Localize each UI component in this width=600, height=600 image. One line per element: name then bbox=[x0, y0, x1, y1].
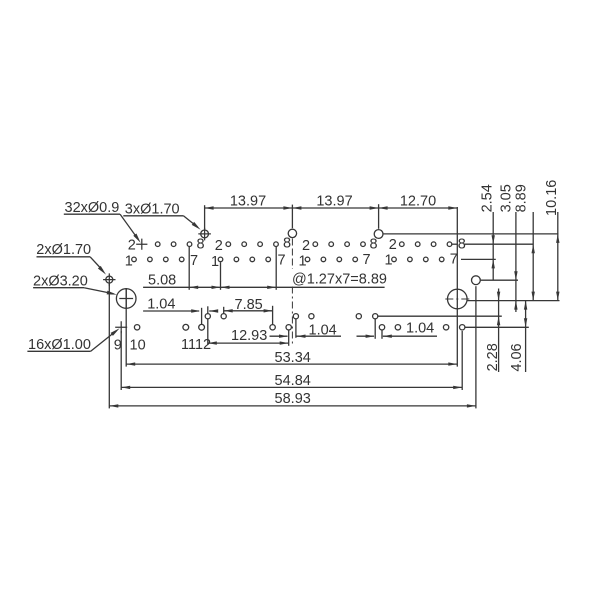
svg-text:2: 2 bbox=[128, 238, 136, 254]
svg-text:2xØ1.70: 2xØ1.70 bbox=[36, 242, 91, 258]
arrow right of 207.8 bbox=[209, 309, 218, 312]
ext line up from hole H1 bbox=[204, 205, 206, 229]
col 8.89 line bbox=[532, 212, 534, 301]
leader to big left hole bbox=[84, 288, 113, 294]
pins row D pair 446-462 bbox=[443, 325, 448, 330]
pin 9 cross bbox=[115, 321, 127, 333]
dim line 58.93 bbox=[109, 405, 476, 407]
col 2.28 line bbox=[498, 289, 500, 373]
svg-text:7: 7 bbox=[363, 252, 371, 268]
svg-text:10.16: 10.16 bbox=[544, 180, 560, 216]
dim line 12.93 bbox=[208, 342, 289, 344]
col 2.54 line bbox=[492, 212, 494, 280]
dim line 13.97+13.97+12.70 bbox=[205, 207, 458, 209]
group1 pin2 cross bbox=[136, 239, 147, 250]
ext line down from pin D6 bbox=[288, 330, 290, 346]
ext line up from hole H3 bbox=[378, 204, 380, 229]
arrows at 378.6 bbox=[370, 206, 379, 209]
dim text @1.27x7=8.89 bbox=[288, 269, 386, 285]
arrow at 457.3 right bbox=[448, 206, 457, 209]
dim line 5.08 and 8.89 long bbox=[143, 286, 385, 288]
svg-text:7: 7 bbox=[278, 252, 286, 268]
svg-text:1.04: 1.04 bbox=[147, 297, 175, 313]
col 4.06 line bbox=[525, 301, 527, 372]
svg-text:10: 10 bbox=[130, 337, 146, 353]
hole H2 circle bbox=[288, 229, 296, 237]
col 3.05 arrows bbox=[514, 271, 517, 280]
pins row D pair 272-289 bbox=[270, 325, 275, 330]
pins row C pair near 208-224 bbox=[205, 314, 210, 319]
ext line row C to right bbox=[378, 315, 502, 317]
svg-text:13.97: 13.97 bbox=[316, 193, 352, 209]
svg-text:3.05: 3.05 bbox=[499, 184, 515, 212]
col 10.16 line bbox=[557, 212, 559, 301]
svg-text:7.85: 7.85 bbox=[235, 297, 263, 313]
group2 row A pins 2,4,6,8 bbox=[226, 242, 231, 247]
hole H1 crossed circle bbox=[201, 230, 209, 238]
svg-text:53.34: 53.34 bbox=[275, 350, 311, 366]
svg-text:7: 7 bbox=[190, 253, 198, 269]
small left hole crossed bbox=[106, 276, 113, 283]
ext line down from pin C6 bbox=[374, 319, 376, 339]
svg-text:@1.27x7=8.89: @1.27x7=8.89 bbox=[292, 271, 387, 287]
group3 row A pins 2,4,6,8 bbox=[313, 242, 318, 247]
svg-text:32xØ0.9: 32xØ0.9 bbox=[65, 200, 120, 216]
pins row D pair 382-398 bbox=[379, 325, 384, 330]
svg-text:54.84: 54.84 bbox=[275, 373, 311, 389]
ext line up from pin D5 bbox=[272, 306, 274, 325]
ext line row B to right bbox=[461, 258, 496, 260]
ext line row D to right bbox=[465, 326, 529, 328]
ext line pin C1 vertical bbox=[207, 306, 209, 345]
svg-text:1.04: 1.04 bbox=[406, 321, 434, 337]
col 8.89 arrows bbox=[532, 244, 535, 253]
col 3.05 line bbox=[515, 212, 517, 312]
leader to small left hole bbox=[90, 257, 103, 271]
svg-text:12.93: 12.93 bbox=[231, 328, 267, 344]
pins row C pair 359-375 bbox=[356, 314, 361, 319]
ext line down from pin C3 bbox=[295, 319, 297, 338]
svg-text:8: 8 bbox=[370, 236, 378, 252]
dim line 54.84 bbox=[121, 386, 462, 388]
pins row C pair 296-311 bbox=[293, 314, 298, 319]
dim line 1.04 first bbox=[143, 310, 199, 312]
ext line down from group2 pin1 bbox=[220, 262, 222, 290]
arrow 8.89 right bbox=[267, 286, 276, 289]
group1 row B pins 1,3,5,7 bbox=[132, 257, 137, 262]
group4 row B pins 1,3,5,7 bbox=[392, 257, 397, 262]
svg-text:4.06: 4.06 bbox=[509, 343, 525, 371]
pins 11 12 circles bbox=[183, 324, 189, 330]
ext line down from group2 pin8 bbox=[275, 247, 277, 290]
ext line right from hole H3 bbox=[383, 233, 558, 235]
col 2.28 arrows bbox=[497, 292, 500, 301]
ext line big right hole level bbox=[467, 300, 560, 302]
ext line down from group1 pin8 bbox=[188, 247, 190, 290]
svg-text:8: 8 bbox=[283, 235, 291, 251]
ext line up from pin C2 bbox=[223, 307, 225, 314]
svg-text:2xØ3.20: 2xØ3.20 bbox=[33, 273, 88, 289]
pin 10 circle bbox=[134, 325, 139, 330]
col 10.16 arrows bbox=[556, 234, 559, 243]
svg-text:12.70: 12.70 bbox=[400, 193, 436, 209]
small right hole circle bbox=[472, 276, 481, 285]
dim line 53.34 bbox=[126, 363, 457, 365]
svg-text:1: 1 bbox=[299, 253, 307, 269]
big right hole circle bbox=[448, 289, 468, 309]
svg-text:8.89: 8.89 bbox=[514, 184, 530, 212]
svg-text:13.97: 13.97 bbox=[230, 194, 266, 210]
dim line 1.04 third right bbox=[383, 335, 392, 338]
svg-text:1: 1 bbox=[211, 254, 219, 270]
group4 row A pins 2,4,6,8 bbox=[400, 242, 405, 247]
hole H3 circle bbox=[374, 230, 383, 239]
svg-text:16xØ1.00: 16xØ1.00 bbox=[28, 337, 91, 353]
dim line 1.04 second right part bbox=[297, 335, 306, 338]
col 2.54 arrows bbox=[492, 235, 495, 244]
svg-text:58.93: 58.93 bbox=[275, 391, 311, 407]
col 4.06 arrows bbox=[524, 301, 527, 310]
arrows at 220.5 bbox=[212, 286, 221, 289]
svg-text:1: 1 bbox=[125, 253, 133, 269]
svg-text:3xØ1.70: 3xØ1.70 bbox=[125, 201, 180, 217]
group2 row B pins 1,3,5,7 bbox=[218, 257, 223, 262]
svg-text:2: 2 bbox=[302, 238, 310, 254]
group3 row B pins 1,3,5,7 bbox=[305, 257, 310, 262]
ext line small left hole down bbox=[108, 284, 110, 409]
ext line down from pin D7 bbox=[381, 331, 383, 339]
ext line row A to right bbox=[451, 243, 457, 245]
center line of H2 vertical dash-dot bbox=[291, 239, 293, 270]
arrows 7.85 bbox=[224, 309, 233, 312]
svg-text:1: 1 bbox=[385, 253, 393, 269]
svg-text:8: 8 bbox=[197, 236, 205, 252]
svg-text:1.04: 1.04 bbox=[309, 322, 337, 338]
svg-text:2: 2 bbox=[389, 237, 397, 253]
arrow 5.08 left bbox=[189, 286, 198, 289]
ext line big left hole down bbox=[125, 288, 127, 367]
svg-text:2: 2 bbox=[215, 238, 223, 254]
leader to hole H1 bbox=[183, 216, 197, 227]
dim line 1.04 third left bbox=[357, 335, 375, 337]
ext line small right hole to right bbox=[481, 279, 518, 281]
arrows at 292.4 bbox=[283, 206, 292, 209]
arrow at 204.6 left bbox=[205, 206, 214, 209]
leader to pin2 of group1 bbox=[120, 214, 137, 238]
dim line 7.85 bbox=[224, 310, 273, 312]
ext line small right hole down bbox=[475, 286, 477, 408]
svg-text:2.54: 2.54 bbox=[480, 184, 496, 212]
dim line 1.04 second left part bbox=[270, 335, 288, 337]
svg-text:5.08: 5.08 bbox=[148, 273, 176, 289]
svg-text:1112: 1112 bbox=[181, 337, 211, 353]
ext line up from hole H2 bbox=[291, 205, 293, 229]
svg-text:2.28: 2.28 bbox=[485, 343, 501, 371]
arrows 12.93 bbox=[208, 341, 217, 344]
ext line up from pin12 bbox=[201, 308, 203, 325]
ext line pin9 down bbox=[120, 331, 122, 390]
big left hole crossed bbox=[116, 289, 136, 309]
ext line big right hole center vertical bbox=[456, 207, 458, 367]
ext line pin16 down bbox=[461, 331, 463, 390]
group1 row A pins 4,6,8 bbox=[155, 242, 160, 247]
leader to pin 9 bbox=[91, 331, 116, 351]
